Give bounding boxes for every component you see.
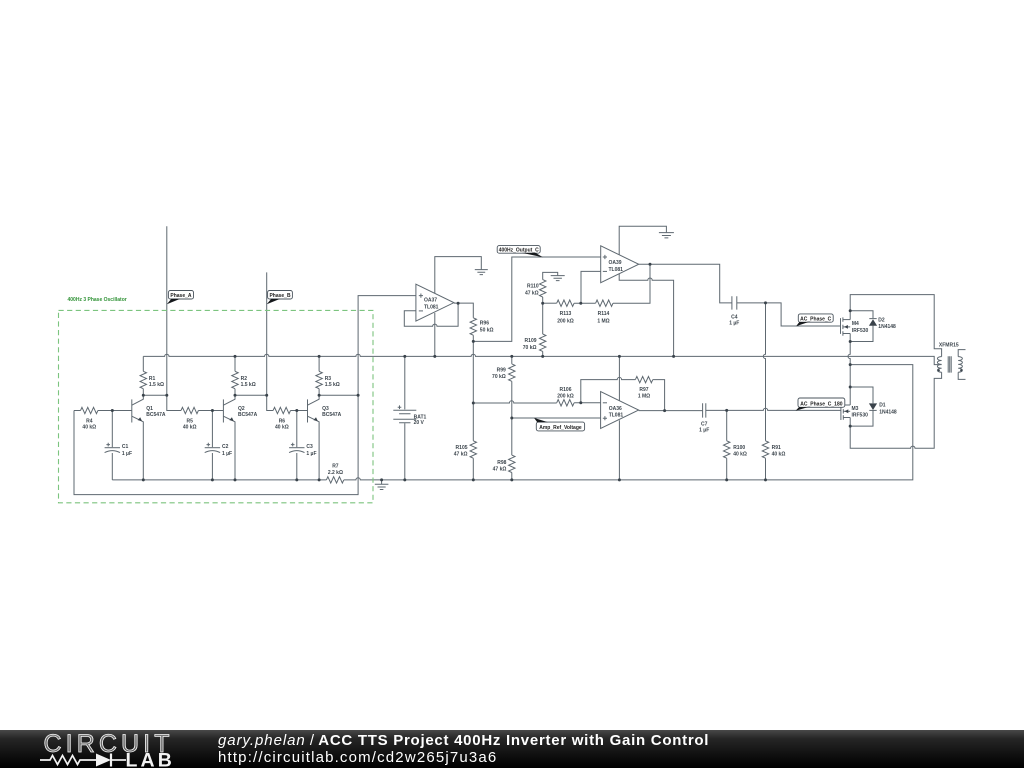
svg-text:70 kΩ: 70 kΩ <box>492 374 506 380</box>
svg-text:200 kΩ: 200 kΩ <box>557 393 574 399</box>
svg-text:BC547A: BC547A <box>146 412 166 418</box>
svg-text:R110: R110 <box>527 283 539 289</box>
svg-text:200 kΩ: 200 kΩ <box>557 318 574 324</box>
svg-text:D1: D1 <box>879 403 886 409</box>
svg-text:R99: R99 <box>497 368 506 374</box>
svg-text:Amp_Ref_Voltage: Amp_Ref_Voltage <box>539 425 582 431</box>
svg-text:Q3: Q3 <box>322 406 329 412</box>
svg-text:1.5 kΩ: 1.5 kΩ <box>241 382 256 388</box>
svg-text:R105: R105 <box>456 445 468 451</box>
svg-text:70 kΩ: 70 kΩ <box>523 345 537 351</box>
svg-text:R114: R114 <box>598 311 610 317</box>
svg-text:50 kΩ: 50 kΩ <box>480 328 494 334</box>
svg-text:LAB: LAB <box>126 750 175 768</box>
svg-text:R7: R7 <box>332 464 339 470</box>
svg-text:1 µF: 1 µF <box>122 451 132 457</box>
svg-text:Q1: Q1 <box>146 406 153 412</box>
svg-text:AC_Phase_C: AC_Phase_C <box>800 316 832 322</box>
svg-text:1 µF: 1 µF <box>729 321 739 327</box>
svg-text:47 kΩ: 47 kΩ <box>493 466 507 472</box>
svg-text:400Hz 3 Phase Oscillator: 400Hz 3 Phase Oscillator <box>68 297 127 303</box>
svg-text:Phase_B: Phase_B <box>269 293 291 299</box>
svg-text:TL081: TL081 <box>424 304 439 310</box>
svg-text:1 MΩ: 1 MΩ <box>638 393 650 399</box>
svg-text:C1: C1 <box>122 444 129 450</box>
svg-text:BC547A: BC547A <box>322 412 342 418</box>
svg-text:40 kΩ: 40 kΩ <box>733 452 747 458</box>
svg-text:R109: R109 <box>525 338 537 344</box>
svg-text:1N4148: 1N4148 <box>878 324 896 330</box>
svg-text:Phase_A: Phase_A <box>170 293 192 299</box>
svg-text:D2: D2 <box>878 318 885 324</box>
svg-text:R96: R96 <box>480 321 489 327</box>
svg-text:400Hz_Output_C: 400Hz_Output_C <box>499 247 539 253</box>
svg-text:C4: C4 <box>731 314 738 320</box>
svg-text:1.5 kΩ: 1.5 kΩ <box>149 382 164 388</box>
svg-text:R106: R106 <box>560 387 572 393</box>
svg-text:R97: R97 <box>639 387 648 393</box>
svg-text:1 MΩ: 1 MΩ <box>597 318 609 324</box>
svg-text:IRF530: IRF530 <box>852 413 869 419</box>
svg-text:47 kΩ: 47 kΩ <box>525 290 539 296</box>
svg-text:R98: R98 <box>497 460 506 466</box>
svg-text:M3: M3 <box>852 406 859 412</box>
svg-text:1 µF: 1 µF <box>222 451 232 457</box>
svg-text:C3: C3 <box>306 444 313 450</box>
svg-text:1 µF: 1 µF <box>306 451 316 457</box>
svg-text:TL081: TL081 <box>609 267 624 273</box>
svg-text:1.5 kΩ: 1.5 kΩ <box>325 382 340 388</box>
svg-text:OA37: OA37 <box>424 298 437 304</box>
svg-text:AC_Phase_C_180: AC_Phase_C_180 <box>800 401 842 407</box>
svg-text:BC547A: BC547A <box>238 412 258 418</box>
svg-text:Q2: Q2 <box>238 406 245 412</box>
svg-text:47 kΩ: 47 kΩ <box>454 451 468 457</box>
svg-text:40 kΩ: 40 kΩ <box>183 425 197 431</box>
svg-text:20 V: 20 V <box>414 420 425 426</box>
svg-text:1N4148: 1N4148 <box>879 409 897 415</box>
svg-text:TL081: TL081 <box>609 412 624 418</box>
svg-text:C2: C2 <box>222 444 229 450</box>
svg-text:OA39: OA39 <box>609 260 622 266</box>
svg-text:R91: R91 <box>772 445 781 451</box>
svg-text:R113: R113 <box>560 311 572 317</box>
svg-text:2.2 kΩ: 2.2 kΩ <box>328 470 343 476</box>
svg-text:XFMR15: XFMR15 <box>939 343 959 349</box>
svg-text:40 kΩ: 40 kΩ <box>772 452 786 458</box>
svg-text:40 kΩ: 40 kΩ <box>82 425 96 431</box>
svg-text:1 µF: 1 µF <box>699 428 709 434</box>
svg-text:R100: R100 <box>733 445 745 451</box>
svg-text:OA36: OA36 <box>609 406 622 412</box>
svg-text:40 kΩ: 40 kΩ <box>275 425 289 431</box>
svg-text:M4: M4 <box>852 321 859 327</box>
svg-text:IRF530: IRF530 <box>852 328 869 334</box>
